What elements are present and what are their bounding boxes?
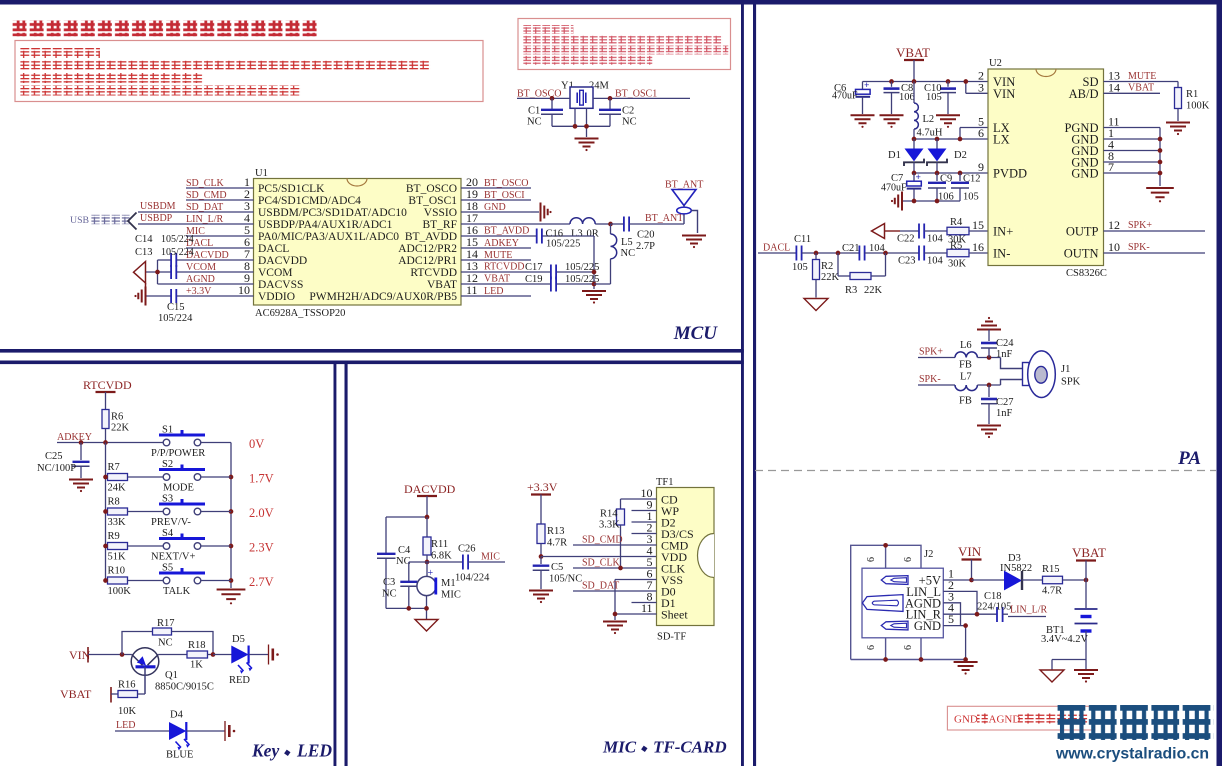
pa chip U2 part number: [1066, 268, 1107, 279]
node avdd bus row13: [592, 270, 597, 275]
svg-text:100K: 100K: [1186, 101, 1210, 112]
ground battery: [1074, 660, 1098, 683]
title note text (red): [12, 21, 319, 37]
crystal note line 4: [523, 56, 652, 65]
key led section label: [251, 741, 332, 761]
svg-text:USBDM: USBDM: [140, 201, 176, 212]
svg-text:105/224: 105/224: [161, 247, 194, 258]
svg-text:6: 6: [903, 645, 914, 650]
capacitor C8: [884, 82, 915, 115]
net label MUTE: [484, 250, 512, 261]
net label SD_CLK: [582, 558, 621, 569]
svg-text:PREV/V-: PREV/V-: [151, 517, 191, 528]
wire spk- in: [918, 384, 955, 386]
wire R7 to S2: [128, 476, 164, 478]
node bus S2: [103, 475, 108, 480]
capacitor C4: [377, 545, 411, 567]
wire key left bus: [105, 443, 107, 581]
node bus S5: [103, 578, 108, 583]
svg-text:MIC: MIC: [441, 590, 461, 601]
led D4: [166, 710, 193, 761]
svg-text:D5: D5: [232, 634, 245, 645]
dashed PA section divider: [755, 470, 1216, 472]
svg-text:4.7uH: 4.7uH: [917, 128, 943, 139]
wire tf cmd: [573, 544, 657, 546]
svg-text:FB: FB: [959, 396, 972, 407]
svg-text:100K: 100K: [108, 586, 132, 597]
svg-text:D2: D2: [954, 150, 967, 161]
svg-text:LED: LED: [116, 720, 135, 731]
pin number 13 U1: [466, 259, 478, 273]
svg-text:LIN_L/R: LIN_L/R: [186, 214, 224, 225]
node dacvdd: [425, 515, 430, 520]
pin number 14 U1: [466, 247, 478, 261]
wire S5 to bus: [201, 580, 231, 582]
svg-text:6.8K: 6.8K: [431, 551, 452, 562]
node r13 c5: [539, 554, 544, 559]
svg-text:TF1: TF1: [656, 477, 674, 488]
node gnd bus 1: [1158, 137, 1163, 142]
pin number 16 U1: [466, 223, 478, 237]
wire C23 to R5: [924, 252, 947, 254]
svg-text:MCU: MCU: [673, 323, 719, 344]
svg-text:R4: R4: [950, 217, 963, 228]
svg-text:NC: NC: [621, 248, 636, 259]
voltage 2.7V: [249, 575, 274, 589]
wire battery ground tee: [1052, 660, 1086, 670]
svg-text:SD_CLK: SD_CLK: [186, 178, 225, 189]
node rail pin3: [963, 79, 968, 84]
svg-text:105/225: 105/225: [546, 239, 580, 250]
svg-text:33K: 33K: [108, 517, 127, 528]
wire U1 pin 8: [146, 271, 254, 273]
node PVDD C7: [912, 171, 917, 176]
svg-text:IN-: IN-: [993, 247, 1010, 261]
pin number 4 U1: [244, 211, 250, 225]
inductor L2: [914, 82, 943, 140]
svg-text:IN5822: IN5822: [1000, 563, 1032, 574]
wire U1 pin16 avdd: [461, 235, 594, 237]
svg-text:VDDIO: VDDIO: [258, 291, 295, 303]
svg-text:VCOM: VCOM: [186, 262, 216, 273]
svg-text:12: 12: [1108, 218, 1120, 232]
svg-text:BLUE: BLUE: [166, 750, 193, 761]
svg-text:6: 6: [866, 645, 877, 650]
pa chip U2 body: [988, 69, 1104, 266]
ferrite bead L7: [955, 372, 977, 407]
mcu U1 body: [254, 179, 462, 306]
node LX L2: [912, 137, 917, 142]
ground U1 row10 sideways: [134, 287, 145, 306]
inductor L5: [594, 224, 635, 284]
wire PVDD ground rail: [903, 200, 960, 202]
capacitor C25: [37, 443, 90, 479]
svg-text:R10: R10: [108, 566, 126, 577]
ground D5 sideways: [269, 645, 279, 665]
svg-text:PC5/SD1CLK: PC5/SD1CLK: [258, 183, 325, 195]
node gnd bus 7: [1158, 171, 1163, 176]
svg-text:SD-TF: SD-TF: [657, 632, 686, 643]
svg-text:BT_AVDD: BT_AVDD: [484, 226, 529, 237]
svg-text:SD_DAT: SD_DAT: [582, 581, 619, 592]
wire vin to q1: [88, 654, 132, 656]
capacitor C11: [792, 234, 811, 273]
net label ADKEY: [484, 238, 519, 249]
svg-text:VBAT: VBAT: [896, 45, 930, 60]
svg-text:8850C/9015C: 8850C/9015C: [155, 682, 214, 693]
pin number 6 U1: [244, 235, 250, 249]
pa chip U2 left pins: [972, 69, 1027, 261]
svg-text:TALK: TALK: [163, 586, 191, 597]
microphone M1: [417, 562, 461, 608]
svg-text:30K: 30K: [948, 235, 967, 246]
switch S3: [151, 494, 205, 529]
net label VCOM: [186, 262, 216, 273]
pin number 5 U1: [244, 223, 250, 237]
mic tf section label: [602, 738, 727, 757]
ground C10: [936, 115, 960, 128]
border key panel right divider: [334, 361, 337, 766]
svg-text:GND: GND: [1071, 167, 1098, 181]
svg-text:VIN: VIN: [993, 87, 1015, 101]
svg-text:16: 16: [972, 240, 984, 254]
capacitor C5: [533, 557, 583, 590]
svg-text:C21: C21: [842, 243, 860, 254]
wire R4 to pin15: [969, 230, 988, 232]
capacitor C17: [525, 262, 599, 280]
svg-text:MUTE: MUTE: [484, 250, 512, 261]
pin number 15 U1: [466, 235, 478, 249]
wire U1 pin12 vbat: [461, 283, 594, 285]
svg-text:PWMH2H/ADC9/AUX0R/PB5: PWMH2H/ADC9/AUX0R/PB5: [309, 291, 457, 303]
wire avdd ground bus: [593, 236, 595, 289]
svg-text:+3.3V: +3.3V: [186, 286, 212, 297]
node BT_RF junction: [608, 222, 613, 227]
svg-text:LED: LED: [484, 286, 503, 297]
net label GND: [484, 202, 506, 213]
border top strip: [0, 0, 1222, 5]
transistor Q1: [131, 648, 214, 694]
watermark url: [1055, 746, 1209, 763]
svg-text:MODE: MODE: [163, 483, 194, 494]
note line 3: [20, 73, 204, 83]
node linr: [975, 612, 980, 617]
svg-text:SPK+: SPK+: [919, 347, 943, 358]
svg-text:Sheet: Sheet: [661, 608, 688, 622]
svg-text:VBAT: VBAT: [484, 274, 510, 285]
svg-text:SD_CMD: SD_CMD: [582, 535, 623, 546]
wire c3 branch: [408, 562, 410, 608]
mcu section border bottom label MCU: [673, 323, 719, 344]
wire U1 pin 5: [186, 235, 254, 237]
svg-text:104: 104: [927, 234, 944, 245]
svg-text:S1: S1: [162, 425, 173, 436]
svg-text:C19: C19: [525, 274, 543, 285]
wire J2 pin3 agnd: [943, 603, 960, 626]
analog ground battery: [1040, 670, 1064, 682]
diode D2: [927, 139, 967, 173]
svg-text:105: 105: [963, 192, 979, 203]
svg-text:AGND: AGND: [186, 274, 215, 285]
svg-text:PVDD: PVDD: [993, 167, 1027, 181]
svg-text:LED: LED: [296, 741, 332, 761]
svg-text:NC: NC: [382, 589, 397, 600]
svg-text:R14: R14: [600, 509, 618, 520]
svg-text:GND: GND: [954, 714, 978, 726]
note line 4: [20, 86, 301, 96]
node gnd pin5: [963, 623, 968, 628]
svg-text:DACL: DACL: [763, 243, 790, 254]
net label SD_DAT: [582, 581, 619, 592]
capacitor C6 electrolytic: [832, 81, 870, 114]
node right bus S5: [229, 578, 234, 583]
wire mic row: [409, 561, 463, 563]
note line 2: [20, 61, 430, 71]
svg-text:104: 104: [927, 256, 944, 267]
node tf sheet: [613, 612, 618, 617]
svg-text:R13: R13: [547, 526, 565, 537]
svg-text:10: 10: [238, 283, 250, 297]
svg-text:6: 6: [866, 557, 877, 562]
wire U1 pin 11: [461, 295, 531, 297]
svg-text:105: 105: [926, 92, 942, 103]
wire vbat to r16: [111, 693, 118, 695]
wire tf d2 stub: [632, 521, 657, 523]
wire spk- to speaker: [1001, 380, 1024, 386]
wire C20 to antenna: [629, 223, 684, 225]
wire U1 pin 6: [186, 247, 254, 249]
design notes box: [15, 41, 483, 102]
wire tf cd r14: [621, 499, 657, 509]
net label SD_CLK: [186, 178, 225, 189]
node LX D2: [935, 137, 940, 142]
node avdd bus row12: [592, 282, 597, 287]
resistor R7: [108, 462, 128, 494]
svg-text:2.3V: 2.3V: [249, 541, 274, 555]
svg-text:USB: USB: [70, 215, 90, 226]
pa chip U2 designator: [989, 58, 1002, 69]
power label VBAT battery: [1072, 545, 1106, 580]
wire S2 to bus: [201, 476, 231, 478]
svg-text:51K: 51K: [108, 552, 127, 563]
USB test point note: [70, 213, 137, 230]
wire tf clk: [573, 567, 657, 569]
svg-text:D1: D1: [888, 150, 901, 161]
border right edge: [1217, 0, 1222, 766]
net label VBAT ab/d: [1128, 83, 1154, 94]
wire U1 pin 7: [158, 259, 254, 261]
svg-text:VBAT: VBAT: [60, 687, 92, 701]
svg-text:SPK-: SPK-: [919, 374, 941, 385]
wire adkey: [57, 442, 163, 444]
ground D4 sideways: [225, 721, 235, 741]
svg-text:BT_OSCO: BT_OSCO: [406, 183, 457, 195]
svg-text:PC4/SD1CMD/ADC4: PC4/SD1CMD/ADC4: [258, 195, 361, 207]
resistor R5: [947, 241, 969, 270]
svg-text:C17: C17: [525, 262, 543, 273]
pin number 10 U1: [238, 283, 250, 297]
capacitor C10: [924, 82, 956, 115]
wire U1 pin 19: [461, 199, 531, 201]
switch S5: [159, 563, 205, 598]
wire J2 pin1: [943, 579, 971, 581]
capacitor C24: [977, 317, 1014, 360]
node gnd bus 8: [1158, 160, 1163, 165]
wire C11 to C21: [802, 252, 860, 254]
svg-text:224/105: 224/105: [977, 602, 1011, 613]
resistor R2: [813, 253, 840, 298]
net label BT_OSCO: [484, 178, 528, 189]
svg-text:C18: C18: [984, 591, 1002, 602]
svg-text:Q1: Q1: [165, 670, 178, 681]
svg-text:PA0/MIC/PA3/AUX1L/ADC0: PA0/MIC/PA3/AUX1L/ADC0: [258, 231, 399, 243]
svg-text:J1: J1: [1061, 364, 1070, 375]
wire d5 cathode: [249, 654, 268, 656]
mcu U1 part number: [255, 308, 345, 319]
svg-text:C3: C3: [383, 577, 395, 588]
tf card TF1 body: [657, 488, 715, 626]
resistor R13: [537, 524, 567, 557]
wire U1 pin 3: [138, 211, 254, 213]
wire U2 pin14 vbat: [1104, 92, 1161, 94]
ground antenna: [682, 236, 706, 249]
capacitor C22: [897, 224, 944, 245]
svg-text:C15: C15: [167, 302, 185, 313]
net label BT_OSC1: [615, 89, 657, 100]
svg-text:R3: R3: [845, 285, 857, 296]
node shell bottom a: [883, 657, 888, 662]
ferrite bead L6: [955, 340, 977, 371]
svg-text:11: 11: [466, 283, 478, 297]
ground R1: [1166, 123, 1190, 136]
resistor R10: [108, 566, 132, 598]
svg-text:www.crystalradio.cn: www.crystalradio.cn: [1055, 746, 1209, 763]
net label BT_OSCO: [517, 89, 561, 100]
svg-text:NC: NC: [527, 117, 542, 128]
node adkey c25: [79, 440, 84, 445]
wire U1 pin 18 gnd: [531, 211, 539, 213]
node adkey r6: [103, 440, 108, 445]
connector J2 pin names: [905, 567, 954, 634]
svg-text:ADC12/PR2: ADC12/PR2: [398, 243, 457, 255]
net label AGND: [186, 274, 215, 285]
power label DACVDD: [404, 482, 456, 517]
svg-text:U1: U1: [255, 168, 268, 179]
svg-text:R16: R16: [118, 680, 136, 691]
svg-text:IN+: IN+: [993, 225, 1013, 239]
wire d5 anode: [213, 654, 232, 656]
svg-text:470uF: 470uF: [881, 183, 907, 194]
svg-text:AGND: AGND: [989, 714, 1021, 726]
svg-text:10K: 10K: [118, 706, 137, 717]
svg-text:3: 3: [978, 80, 984, 94]
net label SPK+ out: [1128, 220, 1152, 231]
node crystal rail b: [584, 124, 589, 129]
capacitor C20: [611, 217, 656, 253]
ground key bus: [217, 590, 246, 605]
op area chip U1 designator: [255, 168, 268, 179]
connector J2 shell frame: [851, 545, 965, 659]
svg-text:1K: 1K: [190, 660, 203, 671]
crystal Y1 label: [561, 81, 610, 92]
resistor R17 loop: [122, 618, 213, 655]
net label LED: [116, 720, 135, 731]
ground crystal: [575, 139, 599, 152]
voltage 0V: [249, 437, 264, 451]
capacitor C14: [135, 234, 194, 267]
node gnd bus 4: [1158, 148, 1163, 153]
svg-text:2.7P: 2.7P: [636, 241, 655, 252]
svg-text:S4: S4: [162, 528, 174, 539]
power label VBAT top: [896, 45, 930, 82]
node q1 base: [120, 652, 125, 657]
switch S1: [151, 425, 205, 460]
svg-text:+: +: [864, 81, 869, 91]
net label SD_CMD: [186, 190, 227, 201]
pin number 7 U1: [244, 247, 250, 261]
svg-text:C11: C11: [794, 234, 811, 245]
crystal Y1: [570, 87, 593, 108]
svg-text:470uF: 470uF: [832, 91, 858, 102]
node tf clk r14: [618, 566, 623, 571]
svg-text:22K: 22K: [821, 272, 840, 283]
pin number 2 U1: [244, 187, 250, 201]
node LX pin5: [958, 137, 963, 142]
svg-text:USBDP/PA4/AUX1R/ADC1: USBDP/PA4/AUX1R/ADC1: [258, 219, 393, 231]
wire R9 to S4: [128, 545, 164, 547]
ground C8: [880, 115, 904, 128]
tf card TF1 pin names: [641, 486, 694, 622]
wire U1 pin 20: [461, 187, 531, 189]
node PVDD C9: [935, 171, 940, 176]
svg-text:S3: S3: [162, 494, 173, 505]
svg-text:R2: R2: [821, 261, 833, 272]
wire S3 to bus: [201, 511, 231, 513]
antenna BT_ANT: [672, 190, 698, 234]
svg-text:106: 106: [899, 92, 915, 103]
wire led anode: [115, 730, 170, 732]
ground J2: [954, 662, 978, 675]
svg-text:L6: L6: [960, 340, 972, 351]
node shell bottom b: [919, 657, 924, 662]
svg-text:RTCVDD: RTCVDD: [410, 267, 457, 279]
svg-text:VBAT: VBAT: [427, 279, 457, 291]
pin number 1 U1: [244, 175, 250, 189]
svg-text:R6: R6: [111, 412, 123, 423]
svg-text:PA: PA: [1177, 448, 1201, 469]
svg-text:DACVSS: DACVSS: [258, 279, 303, 291]
net label MIC: [468, 552, 505, 563]
svg-text:SD_CMD: SD_CMD: [186, 190, 227, 201]
wire U2 gnd pins bus: [1104, 128, 1161, 187]
switch S4: [151, 528, 205, 563]
net label LED: [484, 286, 503, 297]
resistor R1: [1175, 88, 1210, 122]
gnd agnd note text: [954, 714, 1087, 726]
led D5: [229, 634, 252, 686]
svg-text:ADC12/PR1: ADC12/PR1: [398, 255, 457, 267]
svg-text:0R: 0R: [587, 229, 599, 240]
wire U2 pin12 spk+: [1104, 230, 1206, 232]
svg-text:C22: C22: [897, 234, 915, 245]
diode D3: [1000, 553, 1032, 590]
svg-text:MUTE: MUTE: [1128, 71, 1156, 82]
svg-text:1nF: 1nF: [996, 408, 1013, 419]
wire PVDD row: [914, 172, 988, 174]
wire C22 to R4: [924, 230, 947, 232]
svg-text:SD_DAT: SD_DAT: [186, 202, 223, 213]
node rail m1: [424, 606, 429, 611]
